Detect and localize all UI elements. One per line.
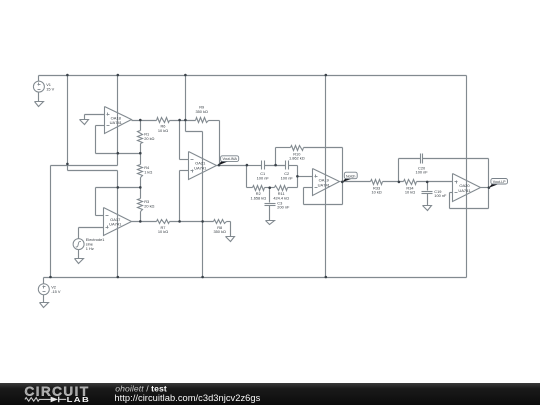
svg-text:1 Hz: 1 Hz [86, 246, 94, 251]
svg-text:20 kΩ: 20 kΩ [144, 136, 154, 141]
svg-text:LAB: LAB [67, 395, 91, 404]
svg-text:100 nF: 100 nF [281, 175, 294, 180]
svg-text:20 kΩ: 20 kΩ [144, 204, 154, 209]
svg-text:100 nF: 100 nF [434, 193, 447, 198]
svg-text:200 nF: 200 nF [277, 205, 290, 210]
svg-text:350 kΩ: 350 kΩ [195, 109, 208, 114]
svg-text:UA741: UA741 [109, 222, 122, 227]
svg-text:Vout-INA: Vout-INA [222, 157, 237, 161]
svg-text:Vout-LP: Vout-LP [493, 180, 506, 184]
svg-text:UA741: UA741 [110, 120, 123, 125]
svg-text:1.658 kΩ: 1.658 kΩ [250, 196, 266, 201]
svg-text:-15 V: -15 V [51, 289, 61, 294]
svg-text:350 kΩ: 350 kΩ [213, 229, 226, 234]
svg-text:UA741: UA741 [458, 188, 471, 193]
svg-text:10 kΩ: 10 kΩ [405, 190, 415, 195]
svg-text:ohoilett / test: ohoilett / test [115, 383, 167, 393]
svg-text:10 kΩ: 10 kΩ [158, 128, 168, 133]
svg-text:1.862 kΩ: 1.862 kΩ [289, 156, 305, 161]
svg-text:15 V: 15 V [46, 87, 54, 92]
svg-text:10 kΩ: 10 kΩ [158, 229, 168, 234]
svg-text:UA741: UA741 [194, 165, 207, 170]
svg-text:UA741: UA741 [318, 182, 331, 187]
svg-text:1 kΩ: 1 kΩ [144, 170, 152, 175]
svg-text:100 nF: 100 nF [257, 175, 270, 180]
svg-text:http://circuitlab.com/c3d3njcv: http://circuitlab.com/c3d3njcv2z6gs [114, 393, 260, 403]
svg-text:10 kΩ: 10 kΩ [371, 190, 381, 195]
svg-text:100 nF: 100 nF [416, 170, 429, 175]
svg-text:Notch: Notch [346, 175, 355, 179]
